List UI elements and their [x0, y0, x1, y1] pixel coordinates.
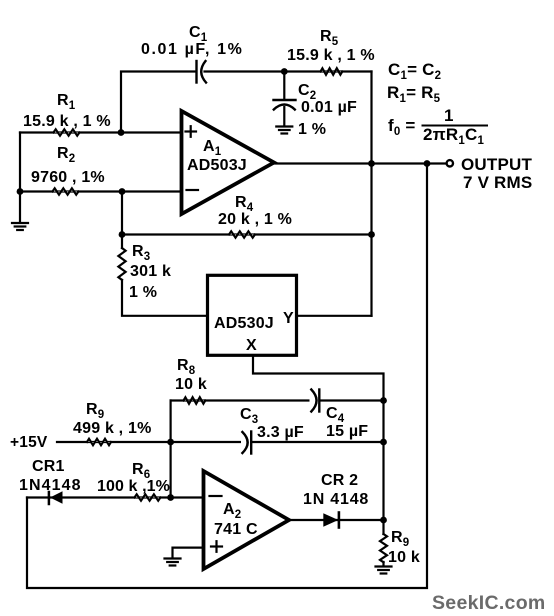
- svg-text:Y: Y: [283, 310, 294, 327]
- wire right vertical x=372 down to Y level: [370, 72, 372, 316]
- svg-text:15 µF: 15 µF: [326, 423, 368, 440]
- wire +15V / C3 line: [57, 441, 384, 443]
- resistor R8: [184, 397, 206, 403]
- wire vertical x170.6 R8 to R6: [170, 401, 172, 498]
- svg-text:1 %: 1 %: [298, 121, 326, 138]
- svg-text:10 k: 10 k: [175, 376, 207, 393]
- wire multiplier Y to x372: [297, 315, 372, 317]
- svg-text:CR1: CR1: [32, 458, 65, 475]
- wire A2 plus input to ground: [173, 548, 204, 558]
- resistor R2: [53, 188, 79, 194]
- node B (A1 - input junction): [119, 188, 126, 195]
- resistor R4: [229, 231, 255, 237]
- wire feedback loop (right, bottom, left): [27, 164, 427, 589]
- ground left rail: [12, 223, 28, 230]
- resistor R9 (10k, vertical): [380, 534, 387, 562]
- wire vertical node B down through R3: [121, 192, 123, 249]
- wire X output path: [253, 355, 384, 400]
- node C2 junction: [281, 68, 288, 75]
- ground A2 plus: [165, 559, 181, 566]
- node R4 right: [368, 231, 375, 238]
- formula fraction bar: [422, 125, 489, 127]
- svg-text:3.3 µF: 3.3 µF: [257, 424, 304, 441]
- svg-text:SeekIC.com: SeekIC.com: [432, 592, 546, 614]
- svg-text:AD530J: AD530J: [214, 315, 274, 332]
- wire CR1 / R6 line: [27, 496, 204, 498]
- resistor R1 wire: [20, 131, 182, 133]
- resistor R9 (499k): [87, 439, 111, 445]
- node output x372: [368, 160, 375, 167]
- svg-text:R1= R5: R1= R5: [387, 83, 441, 105]
- node C3 line right: [380, 439, 387, 446]
- node R6 junction: [167, 494, 174, 501]
- svg-text:10 k: 10 k: [388, 549, 420, 566]
- svg-text:X: X: [246, 337, 257, 354]
- svg-text:1N 4148: 1N 4148: [303, 491, 369, 508]
- svg-text:f0 =: f0 =: [388, 116, 416, 138]
- node A (A1 + input junction): [118, 129, 125, 136]
- diode CR2: [323, 513, 339, 528]
- ground below R9: [376, 567, 392, 574]
- resistor R2 wire: [20, 190, 182, 192]
- diode CR1: [49, 491, 63, 504]
- svg-text:1N4148: 1N4148: [19, 477, 82, 494]
- svg-text:499 k , 1%: 499 k , 1%: [73, 420, 152, 437]
- resistor R3 (vertical): [118, 248, 125, 280]
- svg-text:20 k , 1 %: 20 k , 1 %: [218, 211, 292, 228]
- svg-text:AD503J: AD503J: [187, 157, 247, 174]
- wire R3 bottom to multiplier left: [122, 280, 208, 316]
- wire output line: [272, 162, 446, 164]
- wire R9 to ground: [382, 520, 384, 566]
- svg-text:741 C: 741 C: [214, 521, 258, 538]
- node R4 left: [119, 231, 126, 238]
- output terminal circle: [447, 160, 453, 166]
- node CR2 / R9 junction: [380, 517, 387, 524]
- svg-text:C1= C2: C1= C2: [388, 60, 441, 82]
- A1 plus sign: [186, 126, 197, 137]
- ground below C2: [276, 127, 292, 134]
- resistor R5: [321, 68, 343, 74]
- node output x427: [424, 160, 431, 167]
- node left rail / R2: [17, 188, 24, 195]
- svg-text:301 k: 301 k: [130, 263, 171, 280]
- capacitor C3: [241, 430, 251, 454]
- capacitor C4: [310, 389, 320, 413]
- svg-text:OUTPUT: OUTPUT: [461, 155, 533, 174]
- svg-text:15.9 k , 1 %: 15.9 k , 1 %: [287, 47, 375, 64]
- wire left rail: [19, 133, 21, 223]
- capacitor C1: [197, 61, 207, 83]
- resistor R4 wire: [122, 233, 372, 235]
- svg-text:0.01 µF, 1%: 0.01 µF, 1%: [141, 41, 243, 58]
- wire top left: node A up to C1 line: [121, 72, 196, 133]
- capacitor C2: [274, 72, 296, 127]
- resistor R8 wire: [171, 399, 384, 401]
- op-amp A2: [204, 471, 290, 569]
- svg-text:2πR1C1: 2πR1C1: [423, 125, 484, 147]
- svg-text:15.9 k , 1 %: 15.9 k , 1 %: [23, 113, 111, 130]
- resistor R6: [135, 494, 161, 500]
- resistor R1: [54, 129, 80, 135]
- svg-text:CR 2: CR 2: [321, 472, 358, 489]
- svg-text:1: 1: [444, 106, 454, 125]
- svg-text:+15V: +15V: [10, 434, 48, 451]
- multiplier U1 AD530J box: [208, 275, 297, 355]
- A2 plus sign: [211, 541, 222, 552]
- node +15V junction: [167, 439, 174, 446]
- A1 minus sign: [187, 189, 199, 191]
- wire A2 output to CR2 node: [287, 519, 384, 521]
- svg-text:9760 , 1%: 9760 , 1%: [31, 169, 105, 186]
- svg-text:7 V RMS: 7 V RMS: [463, 173, 532, 192]
- svg-text:1 %: 1 %: [129, 284, 157, 301]
- A2 minus sign: [210, 495, 222, 497]
- node R8 line right: [380, 397, 387, 404]
- svg-text:0.01 µF: 0.01 µF: [301, 99, 357, 116]
- wire C1 right to top-right corner: [205, 70, 372, 72]
- wire vertical x383.5: [382, 401, 384, 521]
- op-amp A1: [182, 111, 275, 214]
- svg-text:100 k ,1%: 100 k ,1%: [97, 478, 170, 495]
